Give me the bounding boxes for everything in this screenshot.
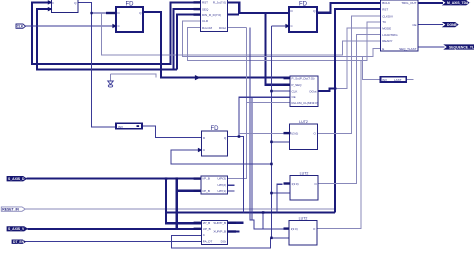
port M_AXIS_TDATA output bbox=[443, 0, 473, 5]
pin stub U6 pin1 bbox=[284, 77, 291, 79]
block U11 LUT bbox=[290, 172, 318, 201]
block U3 (cut off at top) bbox=[201, 0, 228, 31]
wire net pin7 feed: junction to U5 pin READY bbox=[101, 13, 380, 55]
flip-flop U8 FD bbox=[202, 126, 228, 156]
wire net bus3: U3 pin3 down to U9 pin2 and U10 pin2 bbox=[177, 15, 201, 70]
pin stub U9 pin2 bbox=[194, 190, 201, 192]
wire net U11 out to U5 pin LOADTRIG bbox=[318, 34, 381, 183]
svg-text:RESET_IN: RESET_IN bbox=[2, 207, 19, 211]
inverter U13 bbox=[116, 123, 142, 129]
wire net port3 to U10 pin2 bbox=[27, 228, 193, 230]
svg-text:DIN_R_D(7:0): DIN_R_D(7:0) bbox=[202, 13, 221, 17]
pin stub U12 pin1 bbox=[284, 227, 290, 229]
inverter U14 bbox=[381, 77, 407, 82]
wire net bundle staircase to U12 pin1 bbox=[250, 28, 284, 229]
svg-text:LUT2: LUT2 bbox=[299, 120, 308, 124]
wire net port1 branch to U9 pin2 and U10 pin2 bbox=[177, 179, 202, 229]
wire net U3 out3 bus stub bbox=[227, 13, 239, 15]
wire net INV2 output stub bbox=[406, 78, 413, 80]
port S_AXIS_DATA input bbox=[7, 176, 27, 181]
svg-text:LUT2: LUT2 bbox=[300, 172, 309, 176]
pin stub U3 pin3 bbox=[194, 13, 202, 15]
svg-text:CE: CE bbox=[412, 23, 416, 27]
block U7 LUT bbox=[290, 120, 318, 150]
wire net U7 pin1 feed bbox=[239, 133, 284, 135]
pin arrow U8 pin C bbox=[198, 148, 201, 151]
svg-text:LUT2: LUT2 bbox=[299, 217, 308, 221]
wire net U6 out riser to U5 pin MODE bbox=[336, 28, 380, 88]
wire bundle vertical B bbox=[251, 97, 253, 220]
port RESET input bbox=[1, 207, 25, 211]
flip-flop U2 FD bbox=[116, 2, 143, 33]
pin stub U7 pin1 bbox=[284, 132, 291, 134]
svg-text:FD: FD bbox=[211, 126, 220, 132]
wire net U12 out riser bbox=[317, 60, 361, 228]
svg-text:U/P(2): U/P(2) bbox=[217, 183, 226, 187]
block U12 LUT bbox=[289, 217, 317, 245]
wire net U5 out2 to port DONE bbox=[418, 24, 443, 26]
wire net U11 pin1 feed from rail bbox=[277, 184, 283, 212]
node junction port1 branch bbox=[165, 177, 168, 180]
svg-text:RxLCM_CL(MN3:0): RxLCM_CL(MN3:0) bbox=[292, 101, 318, 105]
svg-text:CLKDIV: CLKDIV bbox=[382, 14, 393, 18]
svg-text:U/P(1): U/P(1) bbox=[217, 189, 226, 193]
pin stub U10 out2 bbox=[228, 230, 237, 232]
svg-text:INV: INV bbox=[118, 125, 123, 129]
wire net CLKDIST: clock distribution vertical with taps bbox=[171, 26, 290, 248]
svg-text:READY: READY bbox=[382, 39, 392, 43]
node junction rail drop bbox=[262, 211, 265, 214]
svg-text:E: E bbox=[382, 47, 384, 51]
wire net U3 DOut down to U9 out1 column bbox=[227, 28, 246, 179]
svg-text:FD: FD bbox=[126, 2, 135, 8]
svg-text:LAST: LAST bbox=[394, 78, 402, 82]
pin stub U10 pin1 bbox=[194, 222, 202, 224]
svg-text:SUP/P_B: SUP/P_B bbox=[213, 221, 226, 225]
svg-text:DT_EN: DT_EN bbox=[13, 240, 25, 244]
svg-text:I(3:0): I(3:0) bbox=[291, 131, 298, 135]
pin stub U10 pin2 bbox=[194, 228, 202, 230]
svg-text:SEQ_TLAST: SEQ_TLAST bbox=[399, 47, 417, 51]
wire net U7 out to U5 pin CLKDIV bbox=[317, 16, 380, 133]
wire net Q2 bus: U3 pin2 to U1 pin C bbox=[37, 9, 201, 70]
wire net bus bottom rail to U10 column bbox=[166, 211, 335, 213]
svg-text:CLR: CLR bbox=[202, 19, 209, 23]
pin arrow U1 pin2 bbox=[48, 8, 51, 11]
svg-text:DOut: DOut bbox=[309, 89, 316, 93]
block U9 counter bbox=[201, 176, 228, 194]
wire net U6 out to U5 pin MODE bbox=[318, 88, 336, 91]
flip-flop U1 (FD, cut off at top) bbox=[51, 0, 78, 12]
pin stub U2 pin D bbox=[106, 12, 116, 14]
svg-text:TRIG_OUT: TRIG_OUT bbox=[401, 1, 416, 5]
svg-text:UP_B: UP_B bbox=[203, 227, 211, 231]
wire net FD4_Q bbox=[228, 97, 290, 212]
node junction FD4_Q bbox=[238, 135, 241, 138]
svg-text:RST: RST bbox=[382, 7, 388, 11]
port DONE output bbox=[443, 22, 458, 27]
svg-text:DOut: DOut bbox=[219, 26, 226, 30]
port S_AXIS_VALID input bbox=[7, 227, 27, 232]
node junction dots on clock net bbox=[270, 90, 273, 239]
pin stub U11 pin1 bbox=[284, 182, 291, 184]
wire net U10 out2 to U12 pin1 bbox=[228, 230, 240, 232]
wire net FD2_Q bus to U6 pin1 bbox=[143, 12, 290, 78]
wire net U3 pin4 to U5 pin E bbox=[183, 21, 381, 57]
wire net U3 out1 to U4 pin D and U6 pin2 bbox=[227, 2, 290, 84]
wire net INV2 input bbox=[363, 57, 381, 80]
wire net U10 out1 bbox=[228, 222, 244, 224]
wire net U9 out2 to U11 pin1 bbox=[228, 184, 235, 186]
svg-text:LOADTRIG: LOADTRIG bbox=[382, 33, 398, 37]
wire net RESET riser bbox=[335, 9, 381, 212]
wire net Q1 bus: U3 pin1 to U1 pin D bbox=[32, 2, 201, 64]
svg-text:S_AXIS_V: S_AXIS_V bbox=[8, 227, 25, 231]
svg-text:P_Su(P_Do(7:0)): P_Su(P_Do(7:0)) bbox=[292, 76, 315, 80]
svg-text:RST: RST bbox=[202, 1, 208, 5]
svg-text:BCLK: BCLK bbox=[382, 1, 390, 5]
wire net S_AXIS_D from port1 to U9 pin1 and U10 pin1 bbox=[27, 179, 202, 224]
svg-text:DONE: DONE bbox=[447, 23, 458, 27]
pin arrow on FD2_Q wire bbox=[195, 76, 199, 80]
pin stub U3 pin1 bbox=[194, 1, 202, 3]
pin arrow U1 pin1 bbox=[48, 1, 51, 4]
svg-text:P_SEQ: P_SEQ bbox=[292, 83, 303, 87]
svg-text:S_AXIS_D: S_AXIS_D bbox=[8, 177, 25, 181]
pin stub U9 pin1 bbox=[194, 177, 201, 179]
svg-text:FD: FD bbox=[299, 2, 308, 8]
svg-text:I/P_B: I/P_B bbox=[203, 221, 210, 225]
block U6 shift register bbox=[290, 76, 318, 106]
node junction port1 to U9 pin2 branch bbox=[176, 177, 179, 180]
svg-text:I/P_B: I/P_B bbox=[203, 189, 210, 193]
svg-text:R_Ju(7:0): R_Ju(7:0) bbox=[213, 1, 226, 5]
svg-text:I/P_B: I/P_B bbox=[203, 177, 210, 181]
port CLK input bbox=[16, 24, 26, 29]
svg-text:DOt: DOt bbox=[221, 239, 227, 243]
wire net rail drop to U12 pin1 bbox=[262, 212, 264, 228]
node junction FD1_Q to U2 D bbox=[90, 12, 92, 14]
wire net FD3_Q to U5 pin BCLK bbox=[317, 3, 381, 13]
svg-text:CE: CE bbox=[292, 95, 296, 99]
wire net RESET: port RST_IN to U5 pin RST bbox=[25, 208, 335, 210]
svg-text:SEQUENCE_TL: SEQUENCE_TL bbox=[449, 45, 474, 49]
svg-text:CLK: CLK bbox=[17, 25, 24, 29]
port DT_EN input bbox=[12, 240, 26, 244]
wire net INV1 out to U8 pin D bbox=[142, 126, 202, 138]
svg-text:I(3:0): I(3:0) bbox=[291, 227, 298, 231]
svg-text:PA_DT: PA_DT bbox=[203, 239, 213, 243]
wire net CLK: port CLK to U2 pin C bbox=[26, 25, 117, 27]
port SEQ_TLAST output bbox=[445, 45, 474, 50]
wire net U6 pin5 feed bbox=[246, 101, 290, 103]
wire ground branch bbox=[111, 74, 157, 77]
pin arrow U4 pin C bbox=[286, 24, 289, 27]
svg-text:U/P(3): U/P(3) bbox=[217, 177, 226, 181]
pin arrow U2 pin C bbox=[113, 24, 116, 27]
svg-text:CLK: CLK bbox=[292, 89, 298, 93]
block U5 sequencer bbox=[381, 0, 418, 51]
block U10 counter bbox=[201, 220, 227, 244]
pin stub U6 pin2 bbox=[284, 84, 291, 86]
wire net port4 to U10 pin4 bbox=[26, 240, 202, 242]
wire net U9 out3 bbox=[228, 190, 235, 192]
svg-text:SEQ: SEQ bbox=[202, 7, 209, 11]
svg-text:RxLCM: RxLCM bbox=[202, 26, 213, 30]
svg-text:MODE: MODE bbox=[382, 26, 391, 30]
wire net U5 out3 to port TLAST bbox=[418, 46, 445, 48]
svg-text:XUP/P_B: XUP/P_B bbox=[213, 230, 226, 234]
svg-text:I(3:0): I(3:0) bbox=[292, 182, 299, 186]
pin stub U3 pin2 bbox=[194, 8, 202, 10]
pin stub U10 out1 bbox=[228, 222, 237, 224]
flip-flop U4 FD bbox=[289, 2, 317, 33]
svg-text:M_AXIS_TDATA: M_AXIS_TDATA bbox=[447, 1, 473, 5]
wire net U5 out1 to port M_AXIS bbox=[418, 2, 443, 4]
wire net U3 pin5 to U5 pin LOAD bbox=[187, 22, 380, 61]
ground bbox=[108, 74, 114, 87]
svg-text:INV: INV bbox=[382, 78, 387, 82]
wire net FD1_Q: U1 pin Q to inverter U13 input and U2 pin D bbox=[78, 3, 116, 128]
